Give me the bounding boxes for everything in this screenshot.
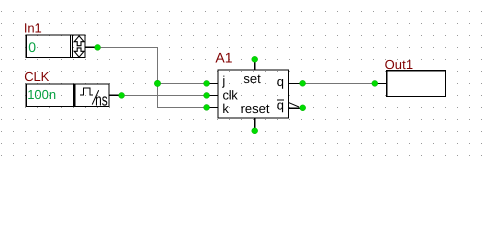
pin k bbox=[207, 107, 218, 108]
svg-text:ns: ns bbox=[95, 90, 108, 109]
node at CLK output bbox=[119, 92, 125, 98]
svg-text:0: 0 bbox=[28, 39, 36, 55]
svg-text:Out1: Out1 bbox=[385, 57, 414, 72]
body bbox=[26, 83, 110, 84]
unit slash bbox=[92, 90, 99, 104]
node at j bbox=[204, 80, 210, 86]
up arrow bbox=[74, 36, 84, 46]
wire to k pin bbox=[157, 107, 204, 108]
svg-text:j: j bbox=[221, 73, 225, 88]
node at clk bbox=[204, 92, 210, 98]
qbar overline bbox=[277, 99, 284, 100]
body bbox=[218, 70, 289, 71]
JK flip-flop A1 bbox=[207, 49, 303, 128]
svg-text:k: k bbox=[222, 101, 229, 116]
pin clk bbox=[207, 95, 218, 96]
svg-text:100n: 100n bbox=[27, 87, 56, 102]
output probe Out1 bbox=[375, 57, 446, 97]
svg-text:CLK: CLK bbox=[24, 69, 49, 84]
wire corner down through junction to k row bbox=[157, 47, 158, 108]
svg-text:set: set bbox=[243, 71, 261, 86]
qbar wedge bbox=[289, 103, 299, 107]
divider bbox=[70, 34, 71, 57]
pin j bbox=[207, 83, 218, 84]
wire CLK to clk pin bbox=[124, 95, 204, 96]
node at In1 output bbox=[95, 44, 101, 50]
node at qbar bbox=[300, 105, 306, 111]
wire junction to j pin bbox=[157, 83, 204, 84]
junction node bbox=[154, 80, 160, 86]
wire In1 node to corner bbox=[100, 47, 158, 48]
node at q bbox=[300, 80, 306, 86]
digital source In1 bbox=[24, 21, 96, 58]
body (white fill hides grid dots) bbox=[387, 71, 445, 96]
pin reset bbox=[254, 119, 255, 129]
pulse waveform glyph bbox=[80, 88, 93, 95]
pin bbox=[375, 83, 386, 84]
down arrow bbox=[74, 48, 84, 57]
pin q bbox=[289, 83, 302, 84]
svg-text:q: q bbox=[277, 74, 284, 89]
svg-text:A1: A1 bbox=[215, 49, 232, 65]
digital clock source CLK bbox=[24, 69, 119, 109]
pin set bbox=[254, 60, 255, 70]
svg-text:reset: reset bbox=[241, 101, 270, 116]
wire q to Out1 bbox=[305, 83, 372, 84]
node at Out1 input bbox=[372, 80, 378, 86]
pin bbox=[86, 47, 96, 48]
pin qbar bbox=[289, 107, 302, 108]
body bbox=[26, 34, 86, 35]
pin bbox=[110, 95, 120, 96]
svg-text:In1: In1 bbox=[24, 21, 42, 36]
node at reset bbox=[252, 128, 258, 134]
divider bbox=[73, 83, 75, 106]
node at set bbox=[252, 56, 258, 62]
node at k bbox=[204, 104, 210, 110]
